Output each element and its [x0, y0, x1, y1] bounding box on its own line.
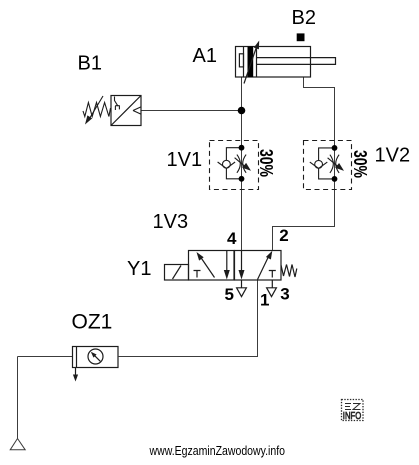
proximity sensor B2 — [297, 33, 305, 41]
throttle arrowhead 1V1 — [242, 163, 251, 171]
svg-text:OZ1: OZ1 — [72, 311, 113, 334]
cylinder A1 piston rod — [257, 58, 336, 65]
cylinder A1 body — [236, 47, 311, 78]
wire cylinder right port to 1V2 and valve port 2 — [273, 77, 335, 250]
return spring 1V3 — [281, 265, 297, 278]
svg-text:30%: 30% — [256, 149, 276, 177]
wire supply to OZ1 — [18, 356, 73, 358]
svg-text:5: 5 — [225, 285, 234, 304]
exhaust silencer port 3 — [267, 280, 277, 297]
valve 1V3 right box flow path 4 to 5 — [241, 250, 243, 271]
svg-text:B1: B1 — [78, 53, 102, 75]
exhaust silencer port 5 — [237, 280, 247, 297]
cylinder A1 cushioning adjust arrow — [244, 47, 257, 84]
wire OZ1 to valve port 1 — [118, 280, 258, 357]
svg-text:INFO: INFO — [343, 410, 362, 422]
wire supply riser — [17, 357, 19, 439]
svg-text:www.EgzaminZawodowy.info: www.EgzaminZawodowy.info — [149, 443, 285, 458]
wire B1 to junction — [141, 110, 242, 112]
svg-text:2: 2 — [279, 226, 288, 245]
valve 1V3 right box flow path 1 to 2 — [258, 255, 270, 280]
junction node 1V2 top — [332, 145, 338, 151]
junction node at B1 tap — [238, 107, 246, 115]
svg-text:B2: B2 — [292, 7, 316, 29]
svg-text:1V1: 1V1 — [167, 149, 203, 171]
service unit OZ1 — [73, 347, 119, 368]
switch contact glyph inside B1 — [115, 97, 120, 111]
svg-text:A1: A1 — [193, 45, 217, 67]
valve 1V3 left box flow path 2 to 3 — [226, 250, 228, 271]
junction node 1V2 bottom — [332, 176, 338, 182]
info stamp icon — [342, 400, 364, 423]
flow control valve 1V1 — [210, 141, 259, 190]
solenoid Y1 — [165, 265, 189, 281]
pressure arrow into B1 — [133, 107, 141, 115]
svg-text:1: 1 — [260, 291, 269, 310]
valve 1V3 right box blocked port 3 — [269, 271, 276, 278]
flow control valve 1V2 — [304, 141, 352, 190]
spring of B1 — [83, 103, 111, 117]
valve 1V3 left box blocked port 5 — [194, 271, 201, 278]
svg-text:1V3: 1V3 — [153, 211, 189, 233]
valve 1V3 right box — [235, 251, 282, 281]
gauge arrowhead OZ1 — [91, 352, 97, 358]
wire cylinder left port to valve port 4 — [241, 77, 243, 250]
junction node 1V1 bottom — [239, 176, 245, 182]
adjustability arrow of B1 — [90, 96, 104, 119]
cylinder A1 magnetic piston band — [248, 47, 254, 78]
valve 1V3 left box flow path 1 to 4 — [200, 256, 215, 278]
junction node 1V1 top — [239, 145, 245, 151]
svg-text:1V2: 1V2 — [375, 145, 411, 167]
drain arrow OZ1 — [75, 368, 77, 378]
svg-text:30%: 30% — [350, 150, 370, 178]
valve 1V3 left box — [189, 251, 235, 281]
compressed air supply source — [10, 439, 25, 450]
svg-text:4: 4 — [227, 229, 237, 248]
throttle arrowhead 1V2 — [335, 163, 344, 171]
pressure switch B1 — [111, 96, 141, 126]
svg-text:3: 3 — [280, 285, 289, 304]
svg-text:Y1: Y1 — [127, 258, 151, 280]
